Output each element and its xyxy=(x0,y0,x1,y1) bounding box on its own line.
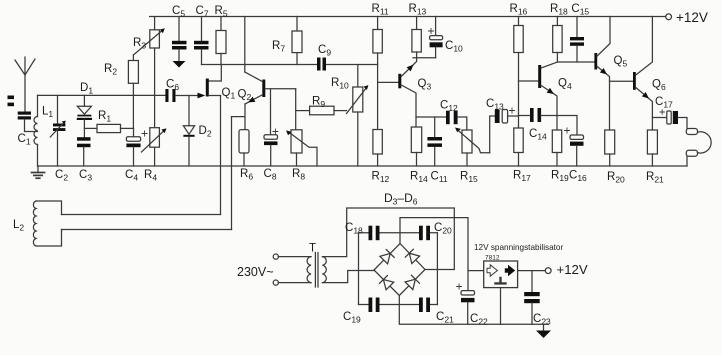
variable resistor R3 xyxy=(133,17,164,128)
resistor R21 xyxy=(647,130,657,166)
capacitor C18 xyxy=(369,226,380,241)
capacitor C21 xyxy=(419,298,430,313)
variable resistor R15 potentiometer xyxy=(455,128,490,167)
capacitor C19 xyxy=(369,298,380,313)
resistor R1 xyxy=(84,124,133,132)
resistor R7 xyxy=(292,17,302,65)
wire L2 lower riser xyxy=(231,117,233,230)
ground supply xyxy=(536,324,551,338)
loudspeaker earphone xyxy=(686,129,711,167)
antenna xyxy=(15,57,35,112)
resistor R17 xyxy=(514,128,523,166)
capacitor C23 xyxy=(524,271,540,325)
capacitor C17 electrolytic xyxy=(652,110,687,129)
wire bridge cap square xyxy=(359,233,438,305)
transistor Q5 NPN xyxy=(594,17,610,131)
diode D4 bridge upper-right xyxy=(405,249,419,263)
transistor Q6 NPN xyxy=(633,17,652,131)
wire Q1 drain riser xyxy=(209,65,222,82)
capacitor C4 electrolytic xyxy=(126,128,147,166)
wire R15 wiper riser xyxy=(490,116,495,153)
transistor Q4 NPN xyxy=(519,62,558,130)
wire L2 lower link xyxy=(62,229,232,231)
resistor R18 xyxy=(553,17,562,63)
scan artifact marks left edge xyxy=(8,96,15,107)
wire node Q1 drain / R5 / R7 / C9 xyxy=(202,64,378,66)
svg-text:+12V: +12V xyxy=(676,10,708,25)
diode D5 bridge lower-left xyxy=(379,276,393,290)
wire R16-R17 vertical xyxy=(518,53,520,129)
wire bridge diamond xyxy=(374,244,425,296)
resistor R19 xyxy=(552,130,561,166)
terminal +12V top xyxy=(666,14,672,20)
svg-text:+12V: +12V xyxy=(557,262,588,277)
capacitor C13 electrolytic xyxy=(495,108,519,123)
wire secondary bottom to bridge left xyxy=(322,271,374,283)
terminal +12V supply xyxy=(545,268,551,274)
variable resistor R8 potentiometer xyxy=(286,130,317,166)
wire Q1 source to L2 xyxy=(220,96,222,215)
wire bridge bottom to supply rail xyxy=(399,296,548,325)
diode D3 bridge upper-left xyxy=(380,250,394,264)
wire Q2 base vertical xyxy=(295,89,297,130)
svg-text:T: T xyxy=(309,243,316,255)
wire Q2 emitter node xyxy=(232,104,246,130)
capacitor C14 xyxy=(519,108,558,122)
wire Q3 emitter node xyxy=(413,57,436,59)
svg-text:7812: 7812 xyxy=(485,255,500,262)
wire bridge top DC riser xyxy=(400,218,468,291)
transistor Q3 PNP xyxy=(378,58,417,127)
terminal mains upper xyxy=(273,254,278,259)
svg-text:230V~: 230V~ xyxy=(237,265,274,279)
capacitor C6 xyxy=(165,89,197,102)
resistor R20 xyxy=(605,130,615,166)
resistor R12 xyxy=(373,130,382,167)
inductor L1 xyxy=(34,95,38,166)
wire bottom rail xyxy=(38,165,688,167)
transistor Q1 FET xyxy=(198,79,221,99)
capacitor C1 xyxy=(18,112,31,120)
wire Q5 emitter to Q6 base xyxy=(610,80,634,82)
capacitor C15 xyxy=(570,17,584,63)
capacitor C12 xyxy=(446,111,467,130)
variable resistor R10 xyxy=(347,65,369,167)
ground main rail xyxy=(32,166,45,178)
wire C1 to L1 tap xyxy=(25,120,38,132)
capacitor C11 xyxy=(427,117,442,166)
resistor R5 xyxy=(216,17,226,65)
wire mains leads xyxy=(278,257,311,283)
transformer T xyxy=(307,253,326,288)
diode D1 xyxy=(77,95,92,137)
wire tank top node xyxy=(38,94,166,96)
svg-text:12V spanningstabilisator: 12V spanningstabilisator xyxy=(474,243,563,252)
capacitor C22 electrolytic xyxy=(457,284,475,324)
inductor L2 xyxy=(33,201,61,246)
wire Q4 collector to Q5 base xyxy=(557,61,594,63)
wire top rail +12V xyxy=(150,16,666,18)
wire Q3 collector node xyxy=(416,116,446,118)
wire secondary top AC detour xyxy=(322,208,454,270)
diode D2 xyxy=(183,96,194,167)
ground C5 xyxy=(173,61,186,68)
resistor R6 xyxy=(239,130,249,166)
capacitor C7 xyxy=(194,17,209,65)
resistor R16 xyxy=(514,17,523,53)
capacitor C9 xyxy=(317,58,326,71)
variable capacitor C2 xyxy=(50,95,66,166)
wire L2 upper link xyxy=(62,214,221,216)
wire R11-R12 vertical xyxy=(377,53,379,130)
voltage regulator 7812 xyxy=(468,261,546,324)
capacitor C3 xyxy=(77,137,91,166)
transistor Q2 PNP xyxy=(245,72,296,104)
svg-text:D3–D6: D3–D6 xyxy=(384,191,418,207)
terminal mains lower xyxy=(273,280,278,285)
capacitor C5 xyxy=(172,17,187,62)
capacitor C20 xyxy=(419,226,430,241)
resistor R13 xyxy=(412,17,421,58)
resistor R14 xyxy=(411,127,421,166)
diode D6 bridge lower-right xyxy=(405,275,419,289)
variable resistor R4 xyxy=(142,128,167,166)
wire Q2 collector riser xyxy=(244,17,246,73)
capacitor C10 electrolytic xyxy=(429,17,443,58)
resistor R2 xyxy=(128,55,138,128)
resistor R9 xyxy=(296,106,347,115)
capacitor C16 electrolytic xyxy=(557,116,584,167)
resistor R11 xyxy=(373,17,382,54)
capacitor C8 electrolytic xyxy=(264,89,278,166)
